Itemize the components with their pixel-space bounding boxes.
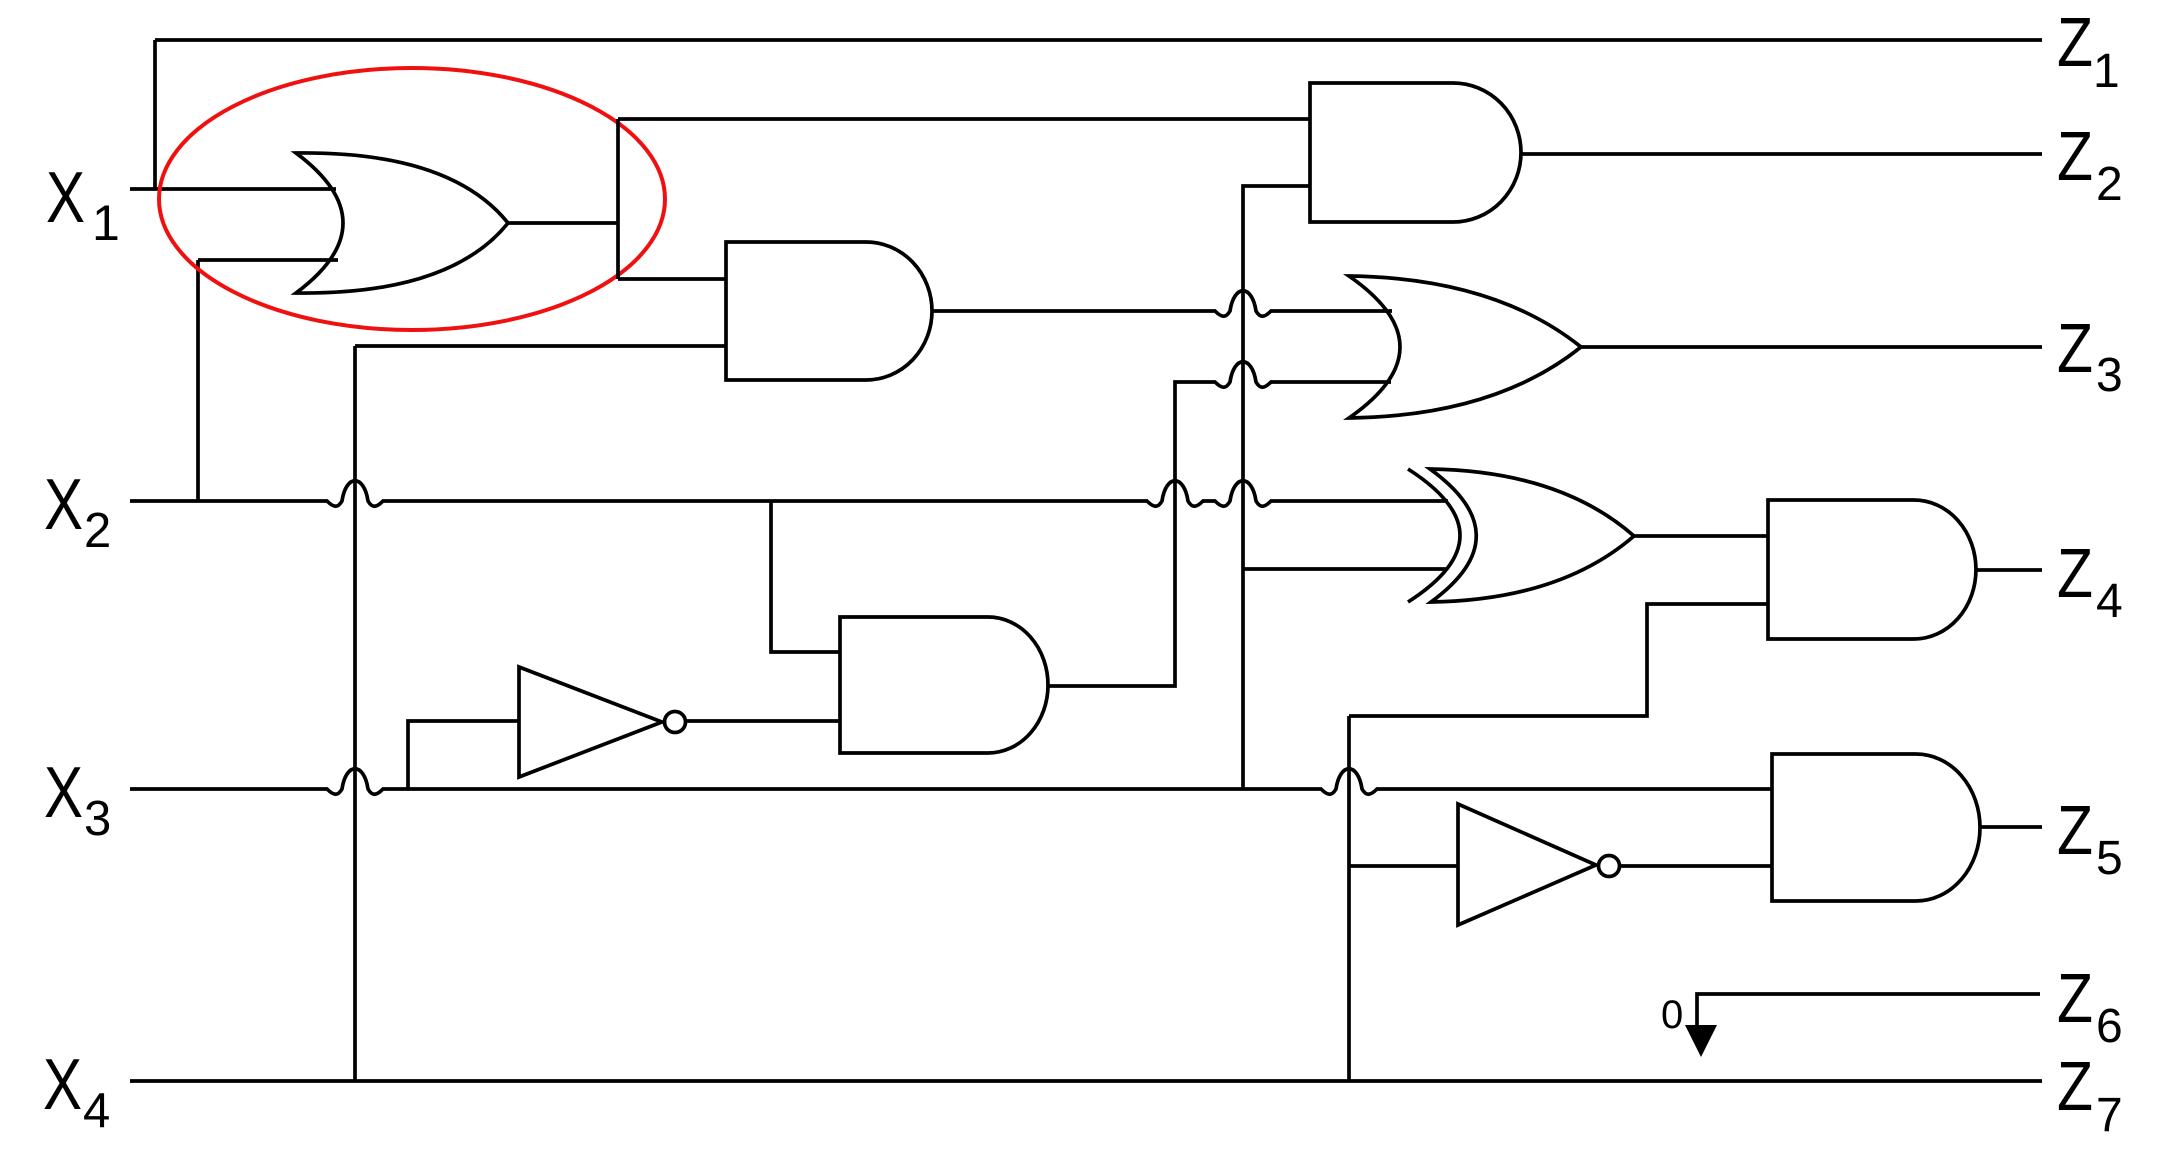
wire AND4 output to Z4 — [1976, 568, 2042, 572]
wire NOT2 output to AND5 bottom input — [1620, 864, 1772, 868]
svg-text:Z: Z — [2057, 1047, 2093, 1125]
xor-gate XOR main body — [1430, 469, 1634, 602]
and-gate AND2 — [726, 242, 932, 380]
svg-text:Z: Z — [2057, 117, 2093, 195]
wire X4 / Z7 net — [130, 1079, 2042, 1083]
wire X1 input to OR1 top input — [130, 187, 336, 191]
and-gate AND3 — [840, 617, 1048, 753]
svg-text:X: X — [44, 753, 83, 833]
wire riser V10: X4 up to AND4 path, tap to NOT2 input — [1349, 716, 1458, 1081]
wire OR1 bottom input horizontal — [198, 258, 338, 262]
or-gate OR3 (Z3) — [1349, 276, 1581, 418]
svg-text:4: 4 — [83, 1084, 110, 1138]
svg-text:X: X — [44, 465, 83, 545]
and-gate AND1 (Z2) — [1310, 83, 1521, 222]
and-gate AND5 (Z5) — [1772, 754, 1980, 901]
wire XOR output to AND4 top input — [1634, 534, 1768, 538]
wire NOT1 output to AND3 bottom input — [686, 719, 840, 723]
wire X4 riser V4 to AND2 bottom input — [355, 346, 726, 1081]
wire AND2 output to OR3 top input (hop over V6) — [932, 291, 1392, 317]
wire AND3 output, riser V5, to OR3 bottom input (hop over V6) — [1048, 362, 1391, 686]
wire NOT1 input from X3 riser V8 — [408, 721, 519, 789]
svg-text:6: 6 — [2096, 1000, 2123, 1053]
or-gate OR1 (circled) — [296, 153, 508, 293]
bubble NOT2 — [1599, 856, 1620, 877]
wire riser OR1 bottom input down to X2 net — [196, 260, 200, 501]
wire V3 bottom to AND2 top input — [618, 277, 726, 281]
svg-text:3: 3 — [2096, 349, 2123, 402]
svg-text:2: 2 — [84, 504, 111, 558]
wire riser V3 — [616, 119, 620, 279]
and-gate AND4 (Z4) — [1768, 500, 1976, 639]
svg-text:1: 1 — [2093, 45, 2120, 98]
wire AND1 output to Z2 — [1521, 152, 2042, 156]
wire AND5 output to Z5 — [1980, 825, 2042, 829]
bubble NOT1 — [665, 712, 686, 733]
not-gate NOT2 — [1458, 804, 1596, 925]
wire X2 net with hops over V4, V5, V6 — [130, 481, 1448, 507]
svg-text:4: 4 — [2096, 575, 2123, 628]
svg-text:X: X — [43, 1045, 82, 1125]
wire V3 top to AND1 top input — [618, 117, 1310, 121]
wire Z6 net with down arrow (constant 0) — [1697, 994, 2040, 1028]
svg-text:2: 2 — [2096, 158, 2123, 211]
svg-text:Z: Z — [2057, 534, 2093, 612]
wire riser V6: X3 up to AND1 bottom input, tap to XOR bottom input — [1243, 186, 1447, 789]
wire AND4 bottom input from riser V9 and V10 horizontal — [1349, 604, 1768, 716]
wire riser V7: X2 down to AND3 top input — [771, 501, 840, 652]
xor-gate XOR (Z4 path) input arc — [1408, 469, 1460, 602]
svg-text:3: 3 — [84, 792, 111, 846]
not-gate NOT1 — [519, 667, 662, 777]
svg-text:0: 0 — [1661, 993, 1683, 1037]
svg-text:5: 5 — [2096, 832, 2123, 885]
svg-text:Z: Z — [2057, 959, 2093, 1037]
svg-text:Z: Z — [2057, 791, 2093, 869]
wire riser X1 to top rail — [153, 40, 157, 189]
svg-text:Z: Z — [2057, 309, 2093, 387]
arrowhead constant-0 pointer — [1685, 1025, 1717, 1057]
svg-text:1: 1 — [92, 195, 120, 251]
wire OR1 output to V3 — [508, 221, 618, 225]
wire X3 net with hops over V4, V10 — [130, 769, 1772, 795]
svg-text:Z: Z — [2057, 3, 2093, 81]
highlight ellipse (red) around OR1 — [159, 68, 665, 330]
wire OR3 output to Z3 — [1581, 345, 2042, 349]
svg-text:7: 7 — [2096, 1089, 2123, 1142]
wire Z1 net: top rail from X1 riser to Z1 — [155, 38, 2042, 42]
svg-text:X: X — [46, 158, 85, 238]
